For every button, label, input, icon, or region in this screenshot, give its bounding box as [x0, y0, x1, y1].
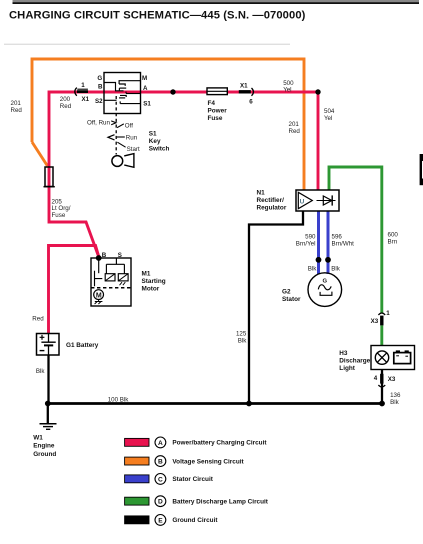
battery minus sign: [40, 350, 45, 352]
starting motor M1 box: [91, 258, 131, 306]
svg-text:125: 125: [236, 330, 247, 337]
fuse F4: [207, 88, 227, 95]
svg-text:Power/battery Charging Circuit: Power/battery Charging Circuit: [172, 440, 267, 447]
svg-text:CHARGING CIRCUIT SCHEMATIC—445: CHARGING CIRCUIT SCHEMATIC—445 (S.N. —07…: [9, 9, 306, 21]
svg-text:Blk: Blk: [390, 399, 400, 406]
svg-text:H3: H3: [339, 350, 348, 357]
wire black ground stub: [47, 404, 49, 424]
svg-text:Brn/Wht: Brn/Wht: [332, 240, 355, 247]
svg-text:Light: Light: [339, 365, 355, 372]
connector X1 pin 1: [75, 88, 88, 96]
svg-text:G2: G2: [282, 289, 291, 296]
svg-text:Brn/Yel: Brn/Yel: [296, 240, 316, 247]
svg-text:C: C: [158, 476, 163, 483]
stator G2 circle: [308, 273, 342, 307]
key switch S1 box: [104, 73, 141, 114]
svg-text:Fuse: Fuse: [52, 212, 66, 219]
svg-text:W1: W1: [33, 434, 43, 441]
svg-text:Red: Red: [289, 128, 301, 135]
svg-text:Red: Red: [32, 315, 44, 322]
connector X3 pin 4: [378, 374, 385, 387]
svg-text:Battery Discharge Lamp Circuit: Battery Discharge Lamp Circuit: [172, 499, 268, 506]
wire green below X3 pin1: [380, 326, 383, 346]
svg-text:Off: Off: [125, 123, 133, 130]
wire orange diagonal to F1: [32, 142, 48, 166]
svg-text:F4: F4: [208, 100, 216, 107]
svg-text:100 Blk: 100 Blk: [108, 396, 130, 403]
junction dot bus regulator: [246, 401, 252, 407]
svg-text:S1: S1: [149, 131, 157, 138]
svg-text:Yel: Yel: [324, 115, 332, 122]
svg-text:A: A: [158, 440, 163, 447]
motor dashed linkage: [91, 287, 131, 289]
motor solenoid coil 1: [105, 274, 115, 281]
key switch S1 internal contacts: [104, 81, 141, 104]
key switch position Off,Run with arrow: [87, 119, 116, 126]
svg-text:Ground Circuit: Ground Circuit: [172, 517, 218, 524]
svg-text:Yel: Yel: [283, 86, 291, 93]
junction dot bus lamp: [379, 401, 385, 407]
legend swatch E black: [125, 516, 149, 524]
svg-text:S1: S1: [143, 101, 151, 108]
key symbol: [112, 154, 134, 168]
svg-text:Run: Run: [126, 134, 138, 141]
svg-text:Stator: Stator: [282, 296, 301, 303]
svg-text:1: 1: [81, 82, 85, 89]
junction dot bus battery: [45, 401, 51, 407]
svg-text:Switch: Switch: [149, 146, 170, 153]
svg-text:G: G: [323, 279, 328, 285]
svg-text:Starting: Starting: [142, 278, 166, 285]
battery icon in lamp box: [394, 350, 411, 363]
svg-text:X3: X3: [371, 318, 379, 325]
svg-text:Off, Run: Off, Run: [87, 119, 110, 126]
motor solenoid wiring: [95, 258, 125, 286]
page edge mark: [420, 154, 423, 185]
lamp symbol: [375, 351, 388, 364]
regulator U triangle: [298, 192, 312, 208]
svg-text:Voltage Sensing Circuit: Voltage Sensing Circuit: [172, 458, 244, 465]
svg-text:G1 Battery: G1 Battery: [66, 342, 99, 349]
key switch position Start tick: [117, 142, 140, 153]
svg-text:M: M: [96, 292, 102, 299]
ground W1 symbol: [40, 424, 57, 430]
wire pink motor B to battery: [49, 246, 100, 334]
legend circle A: [155, 437, 166, 448]
svg-text:U: U: [300, 198, 305, 205]
svg-text:Blk: Blk: [331, 265, 341, 272]
svg-text:1: 1: [386, 310, 390, 317]
key switch S1 dashed actuator line: [115, 96, 117, 155]
svg-text:Motor: Motor: [142, 286, 160, 293]
wire orange voltage-sensing 201 Red top run: [32, 59, 304, 190]
svg-text:M: M: [142, 75, 147, 82]
key switch position Run arrow: [108, 134, 138, 141]
wire pink F1 to motor B: [49, 167, 99, 258]
junction dot blue right Blk: [325, 257, 331, 263]
svg-text:6: 6: [249, 98, 253, 105]
wire blue stator right 596: [327, 211, 330, 274]
svg-text:A: A: [143, 85, 148, 92]
svg-text:Blk: Blk: [238, 337, 248, 344]
faint rule under title: [4, 43, 290, 45]
title rule thin: [13, 0, 420, 2]
svg-text:M1: M1: [142, 271, 151, 278]
junction dot blue left Blk: [316, 257, 322, 263]
legend circle B: [155, 456, 166, 467]
svg-text:S2: S2: [95, 98, 103, 105]
svg-text:B: B: [102, 252, 107, 259]
wire black lamp to ground: [381, 364, 383, 404]
svg-text:Regulator: Regulator: [257, 204, 287, 211]
motor solenoid coil 2: [118, 274, 128, 281]
wire black ground bus 100 Blk: [48, 402, 383, 405]
svg-text:Key: Key: [149, 138, 161, 145]
battery G1 box: [37, 334, 60, 356]
motor terminal B dot: [96, 255, 102, 261]
legend circle E: [155, 515, 166, 526]
svg-text:Blk: Blk: [36, 368, 46, 375]
svg-text:201: 201: [11, 100, 22, 107]
svg-text:D: D: [158, 499, 163, 506]
legend circle C: [155, 474, 166, 485]
battery plus sign: [40, 335, 45, 340]
svg-text:X3: X3: [388, 376, 396, 383]
wire black battery negative: [47, 355, 49, 404]
rectifier regulator N1 box: [296, 190, 339, 211]
svg-text:X1: X1: [82, 96, 90, 103]
motor plunger hatches: [120, 282, 126, 285]
key switch position Off tick: [117, 123, 133, 130]
svg-text:Ground: Ground: [33, 451, 56, 458]
svg-text:Red: Red: [11, 107, 23, 114]
connector X3 pin 1: [378, 313, 385, 325]
junction dot pink at 504 corner: [315, 89, 320, 94]
svg-text:Brn: Brn: [388, 238, 398, 245]
svg-text:Red: Red: [60, 103, 72, 110]
legend swatch C blue: [125, 475, 149, 483]
fusible link F1: [44, 167, 55, 187]
discharge light H3 box: [371, 346, 415, 370]
legend circle D: [155, 496, 166, 507]
svg-text:Rectifier/: Rectifier/: [257, 197, 285, 204]
svg-text:X1: X1: [240, 83, 248, 90]
battery internal plates: [41, 334, 55, 356]
svg-text:Fuse: Fuse: [208, 115, 223, 122]
connector X1 pin 6: [239, 88, 254, 96]
svg-text:E: E: [158, 517, 163, 524]
svg-text:G: G: [97, 75, 102, 82]
svg-text:N1: N1: [257, 189, 266, 196]
legend swatch D green: [125, 497, 149, 505]
wire pink main horizontal 200/500: [49, 92, 318, 190]
regulator diode: [317, 195, 336, 205]
svg-text:S: S: [118, 252, 122, 259]
svg-text:Discharge: Discharge: [339, 357, 370, 364]
title rule thick: [13, 2, 420, 4]
svg-text:Blk: Blk: [308, 265, 318, 272]
svg-text:Start: Start: [127, 146, 140, 153]
legend swatch B orange: [125, 457, 149, 465]
wire black regulator ground 125 Blk: [249, 211, 303, 404]
motor M circle: [94, 290, 104, 304]
svg-text:Power: Power: [208, 108, 228, 115]
svg-text:Engine: Engine: [33, 443, 55, 450]
wire blue stator left 590: [317, 211, 320, 274]
wire green regulator to discharge light: [329, 167, 382, 313]
legend swatch A pink: [125, 438, 149, 446]
svg-text:4: 4: [374, 375, 378, 382]
svg-text:Stator Circuit: Stator Circuit: [172, 476, 213, 483]
svg-text:B: B: [158, 459, 163, 466]
junction dot pink at key switch output: [170, 89, 175, 94]
svg-text:B: B: [98, 84, 103, 91]
